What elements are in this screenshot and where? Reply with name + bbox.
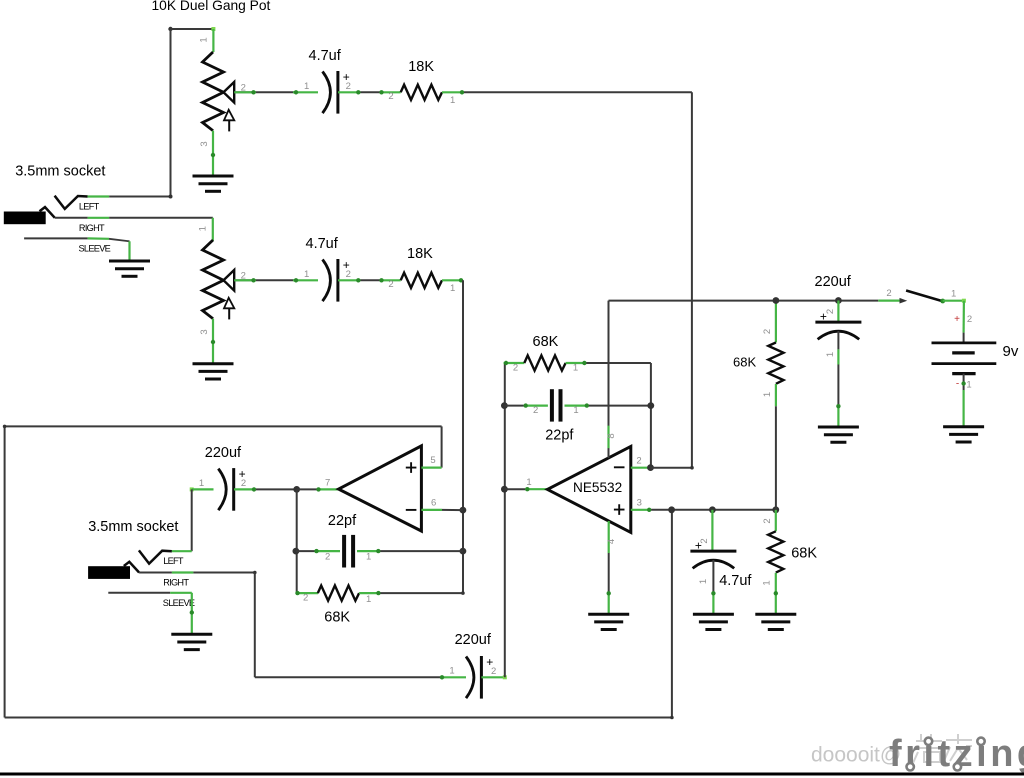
svg-text:5: 5 [430,455,435,466]
svg-text:1: 1 [199,37,210,42]
svg-text:1: 1 [304,81,309,92]
svg-text:LEFT: LEFT [163,556,184,566]
svg-text:2: 2 [388,91,393,102]
svg-text:2: 2 [346,81,351,92]
svg-text:68K: 68K [791,546,817,562]
svg-text:2: 2 [762,518,773,523]
svg-text:2: 2 [388,279,393,290]
svg-text:2: 2 [533,405,538,416]
svg-text:NE5532: NE5532 [573,480,622,495]
svg-text:68K: 68K [533,334,559,350]
svg-text:18K: 18K [407,246,433,262]
svg-text:2: 2 [886,288,891,299]
svg-text:1: 1 [573,363,578,374]
svg-text:6: 6 [431,497,436,508]
svg-text:68K: 68K [733,355,756,370]
svg-text:-: - [956,379,959,390]
svg-text:1: 1 [449,666,454,677]
svg-text:+: + [954,314,960,325]
svg-text:1: 1 [366,552,371,563]
svg-text:2: 2 [303,593,308,604]
svg-text:RIGHT: RIGHT [79,223,105,233]
svg-text:1: 1 [366,594,371,605]
svg-text:1: 1 [762,580,773,585]
svg-text:220uf: 220uf [815,274,852,290]
svg-text:2: 2 [513,363,518,374]
svg-text:4.7uf: 4.7uf [306,236,339,252]
svg-text:2: 2 [636,455,641,466]
svg-text:18K: 18K [408,59,434,75]
svg-text:3: 3 [637,497,642,508]
svg-text:+: + [695,539,702,553]
svg-text:RIGHT: RIGHT [163,578,189,588]
svg-text:+: + [820,310,827,324]
svg-text:68K: 68K [324,610,350,626]
svg-text:9v: 9v [1003,343,1019,360]
svg-text:1: 1 [199,478,204,489]
svg-text:220uf: 220uf [205,445,242,461]
svg-text:1: 1 [198,226,209,231]
svg-text:SLEEVE: SLEEVE [163,598,195,608]
svg-text:220uf: 220uf [455,632,492,648]
svg-text:2: 2 [762,329,773,334]
svg-text:1: 1 [450,95,455,106]
svg-text:1: 1 [698,579,709,584]
svg-text:22pf: 22pf [328,513,357,529]
svg-text:22pf: 22pf [545,428,574,444]
svg-text:3.5mm socket: 3.5mm socket [15,163,105,179]
svg-text:2: 2 [491,666,496,677]
svg-text:1: 1 [526,477,531,488]
svg-text:1: 1 [450,283,455,294]
svg-text:2: 2 [325,552,330,563]
svg-text:2: 2 [346,269,351,280]
svg-text:4.7uf: 4.7uf [719,573,752,589]
svg-text:1: 1 [966,380,971,391]
svg-text:1: 1 [573,405,578,416]
svg-text:3: 3 [199,329,210,334]
svg-text:1: 1 [304,269,309,280]
svg-text:8: 8 [606,433,617,438]
svg-text:2: 2 [241,478,246,489]
svg-text:4: 4 [606,539,617,544]
svg-text:2: 2 [967,314,972,325]
svg-text:3.5mm socket: 3.5mm socket [88,519,178,535]
svg-text:3: 3 [199,141,210,146]
svg-text:1: 1 [762,392,773,397]
svg-text:dooooit@: dooooit@ [811,744,901,767]
svg-text:1: 1 [951,289,956,300]
svg-text:1: 1 [825,352,836,357]
svg-text:7: 7 [325,478,330,489]
svg-text:4.7uf: 4.7uf [309,48,342,64]
svg-text:LEFT: LEFT [79,201,100,211]
svg-text:10K Duel Gang Pot: 10K Duel Gang Pot [152,0,271,13]
svg-text:SLEEVE: SLEEVE [79,244,111,254]
